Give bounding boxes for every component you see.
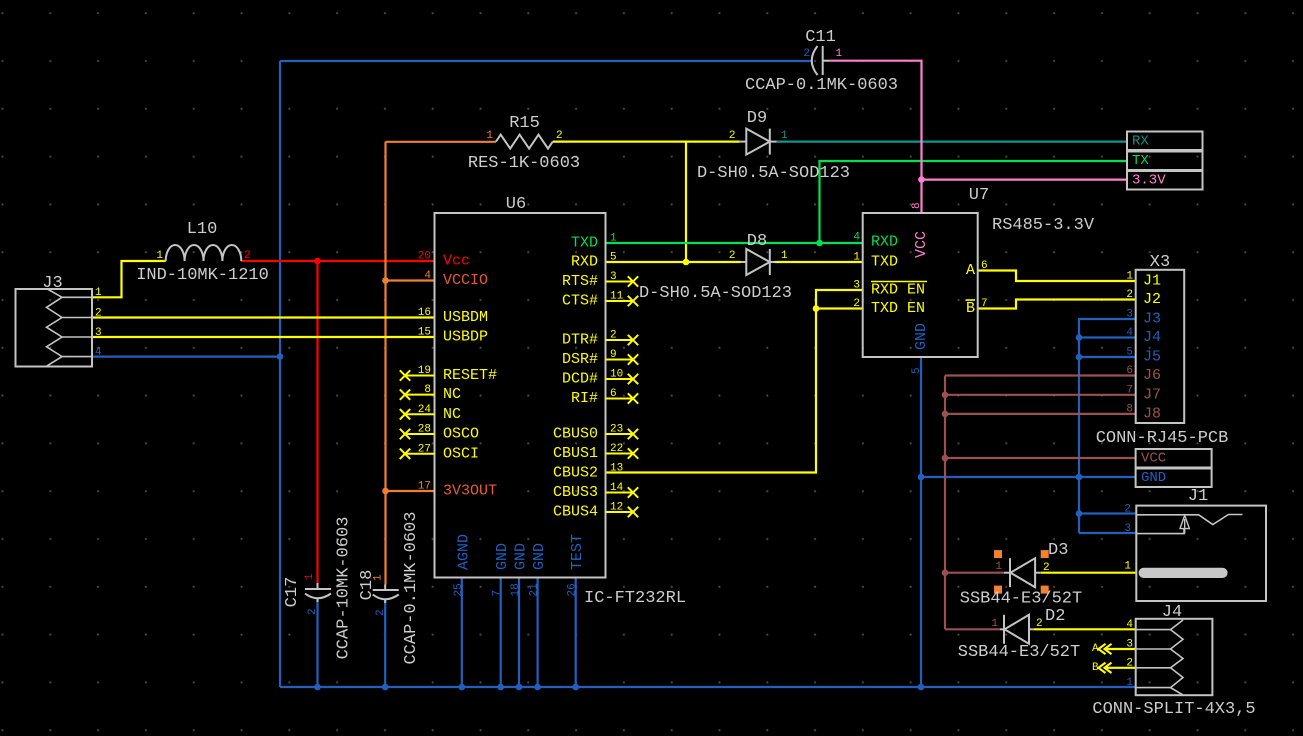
svg-text:VCC: VCC	[1141, 451, 1166, 467]
svg-text:IC-FT232RL: IC-FT232RL	[584, 589, 686, 608]
resistor R15	[496, 135, 553, 149]
svg-text:CBUS1: CBUS1	[553, 445, 598, 462]
wire branch down from R15 net to RXD	[685, 142, 687, 262]
op-amp U6 IC-FT232RL body	[435, 213, 606, 578]
svg-text:1: 1	[373, 574, 385, 581]
svg-text:SSB44-E3/52T: SSB44-E3/52T	[958, 643, 1080, 662]
wire VCC down to C17 pin1	[316, 261, 318, 583]
wire 3.3V to 3.3V port	[922, 179, 1128, 181]
svg-text:GND: GND	[1141, 470, 1166, 486]
J1 jack contact with arrow	[1136, 529, 1184, 534]
svg-text:20: 20	[418, 251, 431, 263]
wire J3 pin1 to L10 pin1	[92, 261, 166, 297]
svg-text:GND: GND	[531, 543, 548, 570]
svg-text:1: 1	[304, 573, 316, 580]
svg-text:RI#: RI#	[571, 390, 598, 407]
port RX	[1127, 132, 1203, 151]
svg-text:VCCIO: VCCIO	[443, 272, 488, 289]
svg-text:5: 5	[610, 252, 617, 264]
svg-text:8: 8	[911, 202, 923, 209]
junction TXD EN	[813, 305, 820, 312]
port VCC	[1136, 449, 1212, 468]
wire U7 GND pin5 down to GND bus	[920, 357, 922, 687]
svg-text:TX: TX	[1132, 153, 1149, 169]
svg-text:OSCO: OSCO	[443, 426, 479, 443]
svg-text:CBUS0: CBUS0	[553, 426, 598, 443]
svg-text:13: 13	[610, 463, 623, 475]
svg-text:2: 2	[1036, 618, 1043, 630]
svg-text:J8: J8	[1143, 405, 1161, 422]
svg-text:J2: J2	[1143, 291, 1161, 308]
wire U6 ground pin at x=461.8 to GND bus	[461, 578, 463, 688]
inductor L10	[166, 245, 242, 261]
svg-text:4: 4	[1126, 327, 1133, 339]
wire to X3 J5	[1079, 356, 1136, 358]
junction GND bus	[534, 684, 541, 691]
svg-text:18: 18	[510, 583, 522, 596]
svg-text:RXD EN: RXD EN	[871, 282, 925, 299]
junction RXD net	[683, 259, 690, 266]
wire to U7 TXD EN	[816, 307, 863, 309]
svg-text:U7: U7	[969, 186, 989, 205]
connector X3 CONN-RJ45-PCB body	[1136, 270, 1185, 423]
svg-text:2: 2	[307, 608, 319, 615]
svg-text:RS485-3.3V: RS485-3.3V	[992, 216, 1095, 235]
svg-text:1: 1	[95, 287, 102, 299]
svg-text:1: 1	[1126, 271, 1133, 283]
svg-text:2: 2	[95, 307, 102, 319]
svg-text:DCD#: DCD#	[562, 371, 598, 388]
diode D2 SSB44	[1000, 628, 1004, 630]
svg-text:1: 1	[486, 130, 493, 142]
svg-text:GND: GND	[494, 543, 511, 570]
svg-text:7: 7	[1126, 384, 1133, 396]
svg-text:J4: J4	[1143, 329, 1161, 346]
svg-text:B: B	[966, 300, 975, 317]
junction D3	[942, 569, 949, 576]
svg-text:3: 3	[1126, 639, 1133, 651]
svg-text:CONN-SPLIT-4X3,5: CONN-SPLIT-4X3,5	[1092, 700, 1255, 719]
svg-text:3: 3	[95, 327, 102, 339]
svg-text:2: 2	[556, 130, 563, 142]
wire USBDM J3 pin2 to U6	[92, 316, 435, 318]
junction J1 pin2	[1076, 510, 1083, 517]
svg-text:TXD EN: TXD EN	[871, 300, 925, 317]
wire to X3 J7	[945, 394, 1136, 396]
junction VCC port	[942, 455, 949, 462]
svg-text:D2: D2	[1045, 607, 1065, 626]
wire to VCC port box	[945, 457, 1136, 459]
diode D3 SSB44	[1004, 572, 1010, 574]
svg-text:4: 4	[853, 232, 860, 244]
svg-text:D8: D8	[747, 232, 767, 251]
svg-text:U6: U6	[506, 195, 526, 214]
svg-text:RX: RX	[1132, 133, 1149, 149]
svg-text:2: 2	[1126, 289, 1133, 301]
svg-text:C11: C11	[805, 28, 836, 47]
port GND	[1136, 469, 1212, 488]
wire VCC from L10 pin2 to U6 Vcc	[241, 260, 434, 262]
svg-text:J1: J1	[1143, 273, 1161, 290]
svg-text:2: 2	[729, 130, 736, 142]
svg-text:AGND: AGND	[455, 534, 472, 570]
svg-text:GND: GND	[913, 323, 930, 350]
wire to X3 J6	[945, 374, 1136, 376]
svg-text:B: B	[1092, 662, 1099, 674]
wire net B to J4 pin2	[1104, 667, 1136, 669]
svg-text:RES-1K-0603: RES-1K-0603	[468, 154, 580, 173]
svg-text:NC: NC	[443, 406, 461, 423]
svg-text:D-SH0.5A-SOD123: D-SH0.5A-SOD123	[697, 164, 850, 183]
svg-text:1: 1	[853, 252, 860, 264]
svg-text:1: 1	[781, 250, 788, 262]
svg-text:25: 25	[453, 583, 465, 596]
svg-text:3.3V: 3.3V	[1132, 172, 1166, 188]
svg-text:USBDP: USBDP	[443, 329, 488, 346]
svg-text:1: 1	[781, 130, 788, 142]
connector J3	[16, 289, 93, 367]
wire U6 ground pin at x=519 to GND bus	[518, 578, 520, 688]
wire U6 ground pin at x=575.7 to GND bus	[575, 578, 577, 688]
junction GND at (1079,477)	[1076, 474, 1083, 481]
svg-text:2: 2	[853, 298, 860, 310]
svg-text:J4: J4	[1162, 603, 1182, 622]
svg-text:TXD: TXD	[571, 235, 598, 252]
svg-text:1: 1	[1124, 561, 1131, 573]
svg-text:C18: C18	[358, 570, 377, 601]
svg-text:1: 1	[991, 618, 998, 630]
wire J3 pin4 to GND vertical	[92, 356, 280, 358]
svg-text:A: A	[966, 262, 975, 279]
wire C18 pin2 to GND bus	[384, 599, 386, 687]
svg-text:D3: D3	[1048, 541, 1068, 560]
svg-text:D9: D9	[747, 109, 767, 128]
wire to J1 pin2	[1079, 512, 1136, 514]
svg-text:CCAP-10MK-0603: CCAP-10MK-0603	[335, 517, 354, 660]
svg-text:3V3OUT: 3V3OUT	[443, 483, 497, 500]
wire net A from U7 to X3 J1	[978, 271, 1136, 282]
wire X3 J3 down vertical	[1079, 319, 1136, 533]
net label B arrow	[1099, 663, 1112, 673]
svg-text:OSCI: OSCI	[443, 445, 479, 462]
wire 3V3 to U6 3V3OUT	[386, 490, 435, 492]
svg-text:5: 5	[911, 367, 923, 374]
junction GND bus	[516, 684, 523, 691]
svg-text:16: 16	[418, 307, 431, 319]
svg-text:RXD: RXD	[571, 254, 598, 271]
junction X3 J5	[1076, 354, 1083, 361]
junction TX	[816, 240, 823, 247]
svg-text:2: 2	[244, 250, 251, 262]
junction GND bus C18	[382, 684, 389, 691]
wire brown vertical	[944, 376, 946, 630]
svg-text:2: 2	[1043, 562, 1050, 574]
port 3.3V	[1127, 171, 1203, 190]
svg-text:IND-10MK-1210: IND-10MK-1210	[136, 266, 269, 285]
svg-text:1: 1	[1126, 677, 1133, 689]
svg-text:RTS#: RTS#	[562, 273, 598, 290]
svg-text:J3: J3	[42, 274, 62, 293]
svg-text:R15: R15	[509, 114, 540, 133]
svg-text:4: 4	[424, 270, 431, 282]
svg-text:DTR#: DTR#	[562, 332, 598, 349]
svg-text:TEST: TEST	[569, 534, 586, 570]
svg-text:15: 15	[418, 327, 431, 339]
wire GND left vertical	[279, 61, 281, 687]
svg-text:3: 3	[1124, 523, 1131, 535]
diode D9	[740, 141, 747, 143]
svg-text:1: 1	[610, 233, 617, 245]
connector J1 body	[1136, 506, 1266, 601]
wire GND bottom bus	[280, 686, 1136, 688]
wire USBDP J3 pin3 to U6	[92, 336, 435, 338]
svg-text:X3: X3	[1150, 253, 1170, 272]
wire D8 pin1 to U7 TXD	[775, 261, 863, 263]
junction GND bus	[572, 684, 579, 691]
capacitor C18	[384, 585, 386, 591]
capacitor C11	[812, 46, 818, 75]
svg-text:SSB44-E3/52T: SSB44-E3/52T	[960, 590, 1082, 609]
wire U6 ground pin at x=500.7 to GND bus	[500, 578, 502, 688]
svg-text:2: 2	[1124, 504, 1131, 516]
svg-text:RXD: RXD	[871, 234, 898, 251]
svg-text:1: 1	[995, 561, 1002, 573]
svg-text:USBDM: USBDM	[443, 309, 488, 326]
wire 3V3 vertical to C18 pin1	[384, 142, 386, 585]
wire U6 ground pin at x=537.6 to GND bus	[536, 578, 538, 688]
svg-text:J1: J1	[1188, 487, 1208, 506]
svg-text:6: 6	[981, 260, 988, 272]
U7 RXD EN overline	[871, 281, 927, 283]
wire net B from U7 to X3 J2	[978, 300, 1136, 309]
svg-text:2: 2	[803, 48, 810, 60]
port TX	[1127, 152, 1203, 171]
junction 3V3 at VCCIO	[382, 277, 389, 284]
svg-text:5: 5	[1126, 347, 1133, 359]
wire CBUS2 to U7 RXD EN	[606, 290, 863, 473]
svg-text:C17: C17	[283, 577, 302, 608]
J1 center pin bar	[1139, 568, 1228, 578]
svg-text:CBUS4: CBUS4	[553, 504, 598, 521]
svg-text:VCC: VCC	[913, 231, 930, 258]
svg-text:7: 7	[492, 590, 504, 597]
svg-text:1: 1	[156, 250, 163, 262]
svg-text:26: 26	[567, 583, 579, 596]
wire U6 RXD to D8 pin2	[606, 261, 741, 263]
wire GND top horizontal to C11 pin2	[280, 60, 812, 62]
svg-text:J5: J5	[1143, 349, 1161, 366]
svg-text:CONN-RJ45-PCB: CONN-RJ45-PCB	[1096, 429, 1229, 448]
svg-text:CCAP-0.1MK-0603: CCAP-0.1MK-0603	[402, 511, 421, 664]
junction J8	[942, 411, 949, 418]
svg-text:CBUS3: CBUS3	[553, 484, 598, 501]
svg-text:TXD: TXD	[871, 254, 898, 271]
wire 3V3 to R15 pin1	[386, 141, 497, 143]
junction GND bus C17	[314, 684, 321, 691]
junction GND bus	[497, 684, 504, 691]
wire 3.3V from C11 pin1 to U7 VCC	[830, 61, 921, 213]
wire to D2 pin1	[945, 628, 1000, 630]
svg-text:D-SH0.5A-SOD123: D-SH0.5A-SOD123	[639, 284, 792, 303]
svg-text:J7: J7	[1143, 386, 1161, 403]
wire GND to GND port box	[921, 476, 1136, 478]
wire C17 pin2 to GND bus	[316, 599, 318, 687]
wire to X3 J8	[945, 413, 1136, 415]
capacitor C17	[317, 583, 319, 589]
svg-text:2: 2	[375, 609, 387, 616]
svg-text:1: 1	[836, 48, 843, 60]
junction 3V3 at 3V3OUT	[382, 488, 389, 495]
svg-text:3: 3	[1126, 309, 1133, 321]
svg-text:DSR#: DSR#	[562, 351, 598, 368]
junction VCC at C17 branch	[314, 258, 321, 265]
D3 selection handles	[994, 550, 1002, 558]
net label A arrow	[1099, 644, 1112, 654]
svg-text:3: 3	[853, 280, 860, 292]
svg-text:8: 8	[1126, 403, 1133, 415]
svg-text:J3: J3	[1143, 311, 1161, 328]
svg-text:L10: L10	[187, 220, 218, 239]
wire to J1 pin3	[1079, 532, 1136, 534]
diode D8	[741, 261, 747, 263]
junction GND at J3 pin4	[277, 353, 284, 360]
wire 3V3 to U6 VCCIO	[386, 279, 435, 281]
svg-text:Vcc: Vcc	[443, 253, 470, 270]
svg-text:7: 7	[981, 298, 988, 310]
svg-text:2: 2	[1126, 657, 1133, 669]
svg-text:2: 2	[729, 250, 736, 262]
wire R15 pin2 to D9 pin2	[553, 141, 740, 143]
svg-text:21: 21	[529, 583, 541, 597]
svg-text:4: 4	[1126, 619, 1133, 631]
junction X3 J4	[1076, 334, 1083, 341]
op-amp U7 RS485-3.3V body	[863, 213, 978, 357]
junction GND bus at x=921	[918, 684, 925, 691]
wire to X3 J4	[1079, 336, 1136, 338]
wire TX branch to TX port	[820, 161, 1128, 243]
J1 jack contact top	[1136, 515, 1242, 525]
junction J7	[942, 392, 949, 399]
junction GND at (921,477)	[918, 474, 925, 481]
svg-text:CBUS2: CBUS2	[553, 465, 598, 482]
connector J4 CONN-SPLIT body	[1136, 619, 1213, 695]
svg-text:17: 17	[418, 481, 431, 493]
svg-text:CTS#: CTS#	[562, 293, 598, 310]
svg-text:A: A	[1092, 643, 1099, 655]
wire D2 pin2 to J4 pin4	[1034, 628, 1136, 630]
wire TX from U6 TXD to U7 RXD	[606, 242, 863, 244]
svg-text:GND: GND	[513, 543, 530, 570]
svg-text:RESET#: RESET#	[443, 367, 497, 384]
wire RX from D9 pin1 to RX port	[777, 141, 1127, 143]
junction GND bus	[459, 684, 466, 691]
wire to D3 pin1	[945, 572, 1004, 574]
svg-text:4: 4	[95, 346, 102, 358]
junction 3.3V	[918, 176, 925, 183]
wire net A to J4 pin3	[1104, 648, 1136, 650]
svg-text:CCAP-0.1MK-0603: CCAP-0.1MK-0603	[745, 76, 898, 95]
svg-text:J6: J6	[1143, 367, 1161, 384]
svg-text:6: 6	[1126, 365, 1133, 377]
wire D3 pin2 to J1 pin1	[1041, 572, 1137, 574]
svg-text:NC: NC	[443, 386, 461, 403]
